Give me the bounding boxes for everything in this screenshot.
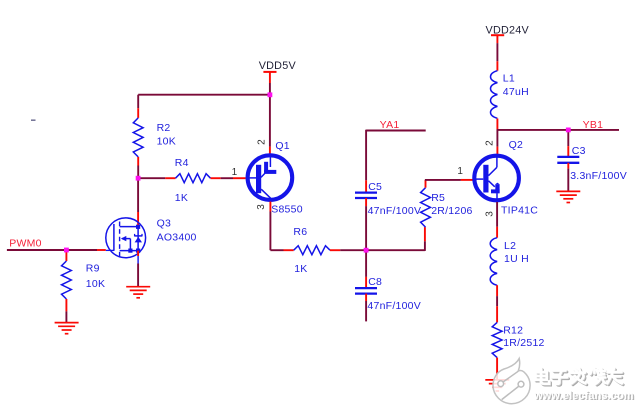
wire stray dash <box>31 119 36 121</box>
svg-text:1K: 1K <box>175 192 188 204</box>
value label L1 47uH <box>503 73 529 99</box>
designator Q2 <box>509 139 524 151</box>
capacitor C3 <box>557 157 579 191</box>
transistor Q2 TIP41C NPN <box>474 155 519 203</box>
ground under C3 <box>556 191 580 202</box>
node junction YB1/C3 <box>566 128 571 133</box>
ground under R9 <box>55 323 79 334</box>
svg-text:R6: R6 <box>293 226 307 238</box>
node YA1 net label <box>380 119 400 131</box>
watermark text www.elecfans.com <box>533 390 635 403</box>
wire R4 junction down to Q3 drain <box>137 178 139 226</box>
svg-text:YB1: YB1 <box>583 119 604 131</box>
value label R4 1K <box>175 157 189 204</box>
svg-text:www.elecfans.com: www.elecfans.com <box>533 390 634 402</box>
wire YB1 horizontal <box>497 129 619 131</box>
svg-text:AO3400: AO3400 <box>157 231 197 243</box>
resistor R4 <box>138 174 233 183</box>
pin number 3 (Q2 emitter, rotated) <box>485 211 496 217</box>
svg-text:R9: R9 <box>86 262 100 274</box>
svg-text:47uH: 47uH <box>503 86 529 98</box>
node YB1 net label <box>583 119 604 131</box>
svg-text:L2: L2 <box>504 240 516 252</box>
node junction PWM0/R9 <box>64 248 69 253</box>
svg-text:Q2: Q2 <box>509 139 524 151</box>
value label R9 10K <box>86 262 105 290</box>
svg-text:3: 3 <box>485 211 496 217</box>
svg-text:3: 3 <box>256 204 267 210</box>
svg-text:S8550: S8550 <box>271 204 303 216</box>
svg-text:2: 2 <box>257 139 268 145</box>
svg-text:10K: 10K <box>157 136 176 148</box>
wire Q1 collector down and to R6 <box>270 202 293 251</box>
value label TIP41C <box>501 205 538 217</box>
designator C8 47nF/100V <box>367 276 421 312</box>
svg-text:1: 1 <box>232 167 238 178</box>
svg-text:C3: C3 <box>572 145 586 157</box>
svg-text:R4: R4 <box>175 157 189 169</box>
capacitor C5 <box>355 193 377 251</box>
wire junction right to R5 <box>366 227 425 251</box>
wire junction down to C8 <box>365 250 367 288</box>
wire R5 top to Q2 base <box>425 179 461 181</box>
wire Q3 source to ground <box>137 251 139 287</box>
svg-text:C5: C5 <box>368 181 382 193</box>
node PWM0 net label <box>9 238 42 250</box>
svg-text:10K: 10K <box>86 278 105 290</box>
svg-text:2: 2 <box>485 140 496 146</box>
svg-text:R5: R5 <box>431 192 445 204</box>
svg-text:1R/2512: 1R/2512 <box>503 337 544 349</box>
inductor L1 <box>491 71 498 130</box>
transistor Q3 AO3400 MOSFET <box>106 218 146 258</box>
capacitor C8 <box>355 288 377 321</box>
designator Q1 <box>275 140 290 152</box>
value label S8550 <box>271 204 303 216</box>
resistor R2 <box>133 95 143 179</box>
wire YA1 corner down to C5 <box>365 130 367 193</box>
svg-text:47nF/100V: 47nF/100V <box>368 205 422 217</box>
wire top rail from R2 to VDD5V <box>138 94 270 96</box>
value label R2 10K <box>157 122 176 147</box>
pin 1 stub of Q2 <box>461 179 473 181</box>
pin number 1 (Q1 base) <box>232 167 238 178</box>
pin 1 stub of Q1 <box>233 177 246 179</box>
node junction R2/R4/Q3 <box>136 176 141 181</box>
svg-text:TIP41C: TIP41C <box>501 205 538 217</box>
svg-text:Q1: Q1 <box>275 140 290 152</box>
node junction VDD5V/R2/Q1 <box>268 92 273 97</box>
resistor R6 <box>294 246 366 255</box>
svg-text:1: 1 <box>457 166 463 177</box>
designator C3 3.3nF/100V <box>570 145 627 182</box>
ground under R12 <box>485 380 509 391</box>
wire YA1 horizontal <box>366 130 426 132</box>
wire L2 to R12 <box>496 296 498 322</box>
svg-text:VDD5V: VDD5V <box>259 60 297 72</box>
pin number 2 (Q2 collector, rotated) <box>485 140 496 146</box>
ground under Q3 <box>126 287 150 298</box>
value label L2 1UH <box>504 240 529 265</box>
svg-text:1K: 1K <box>294 263 307 275</box>
wire Q2 emitter down to L2 <box>496 202 498 238</box>
svg-text:47nF/100V: 47nF/100V <box>367 300 421 312</box>
value label R12 1R/2512 <box>503 325 544 349</box>
svg-text:PWM0: PWM0 <box>9 238 42 250</box>
pin number 3 (Q1 collector, rotated) <box>256 204 267 210</box>
wire PWM0 horizontal to Q3 gate <box>7 249 114 251</box>
svg-text:YA1: YA1 <box>380 119 400 131</box>
watermark text 电子发烧友 <box>535 368 623 385</box>
inductor L2 <box>490 238 497 296</box>
watermark logo <box>493 359 530 404</box>
transistor Q1 S8550 PNP <box>248 155 293 202</box>
value label R6 1K <box>293 226 307 275</box>
node junction R6/C5/C8/R5 <box>364 248 369 253</box>
designator Q3 AO3400 <box>157 217 197 243</box>
svg-text:2R/1206: 2R/1206 <box>431 205 472 217</box>
pin number 1 (Q2 base) <box>457 166 463 177</box>
resistor R5 <box>421 180 431 227</box>
wire YB1 down to Q2 collector <box>496 130 498 154</box>
wire YB1 junction down to C3 <box>567 130 569 157</box>
designator C5 47nF/100V <box>368 181 422 217</box>
svg-text:L1: L1 <box>503 73 515 85</box>
wire R9 to ground <box>65 311 67 322</box>
svg-text:C8: C8 <box>368 276 382 288</box>
svg-text:1U H: 1U H <box>504 253 529 265</box>
svg-text:Q3: Q3 <box>157 217 172 229</box>
svg-text:3.3nF/100V: 3.3nF/100V <box>570 170 627 182</box>
resistor R12 <box>492 322 502 379</box>
value label R5 2R/1206 <box>431 192 472 217</box>
wire VDD5V rail down to Q1 emitter <box>269 95 271 154</box>
pin number 2 (Q1 emitter, rotated) <box>257 139 268 145</box>
svg-text:R12: R12 <box>503 325 523 337</box>
resistor R9 <box>62 250 72 311</box>
svg-text:R2: R2 <box>157 122 171 134</box>
